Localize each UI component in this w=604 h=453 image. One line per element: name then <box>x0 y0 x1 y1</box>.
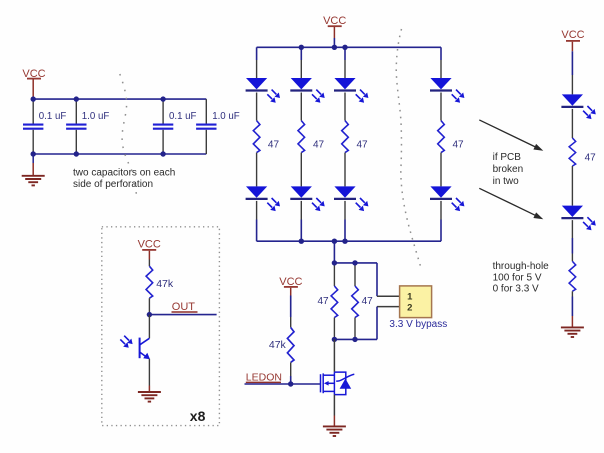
resistor 47 (through-hole column) <box>569 138 596 166</box>
power symbol VCC (LED array) <box>323 15 346 47</box>
wire junction to phototransistor collector <box>148 315 150 339</box>
LED column 2 <box>290 47 324 241</box>
power symbol VCC (x8 cell) <box>138 238 161 266</box>
svg-text:47k: 47k <box>269 339 287 351</box>
perforation dotted line (capacitor bank) <box>120 74 132 171</box>
wire LED array bottom rail to node A <box>333 241 335 263</box>
svg-text:47: 47 <box>357 140 369 151</box>
LED column 1 <box>246 47 280 241</box>
perforation dotted line (LED array) <box>396 29 421 268</box>
wire node B horizontal <box>334 338 377 340</box>
wire LED D2 to through-hole resistor <box>571 220 573 261</box>
node LEDON <box>245 372 321 384</box>
wire bottom rail of capacitor bank <box>33 153 206 155</box>
note: through-hole resistor values <box>493 261 550 295</box>
svg-text:0.1 uF: 0.1 uF <box>169 111 197 122</box>
wire node B to MOSFET drain <box>333 339 335 372</box>
junction dot LEDON node <box>288 381 293 386</box>
svg-text:broken: broken <box>493 164 524 175</box>
capacitor C2 1.0 uF <box>66 99 109 154</box>
svg-text:47: 47 <box>268 140 280 151</box>
svg-text:3.3 V bypass: 3.3 V bypass <box>389 319 447 330</box>
resistor 47 (bypass right) <box>352 263 373 340</box>
arrow lower (if PCB broken) <box>479 188 543 219</box>
svg-text:0.1 uF: 0.1 uF <box>39 111 67 122</box>
junction dots nodes A and B <box>332 260 358 342</box>
capacitor C1 0.1 uF <box>23 99 66 154</box>
svg-text:47: 47 <box>362 296 374 307</box>
wire top rail of LED array <box>257 46 441 48</box>
svg-text:100 for 5 V: 100 for 5 V <box>493 272 542 283</box>
note: two capacitors on each side of perforation <box>73 168 175 191</box>
junction dots on LED array rails <box>299 45 348 244</box>
LED D2 (through-hole column) <box>561 206 595 231</box>
perforation dotted line tail below note <box>135 184 137 198</box>
ground (through-hole column) <box>561 327 584 337</box>
capacitor C4 1.0 uF <box>196 99 240 154</box>
svg-text:0 for 3.3 V: 0 for 3.3 V <box>493 284 539 295</box>
svg-text:47: 47 <box>585 153 597 164</box>
svg-text:47: 47 <box>453 140 465 151</box>
svg-text:VCC: VCC <box>561 29 584 41</box>
MOSFET Q1 with body diode <box>321 372 355 395</box>
svg-text:1.0 uF: 1.0 uF <box>82 111 110 122</box>
svg-text:47: 47 <box>317 296 329 307</box>
node OUT <box>149 301 216 314</box>
dotted box (x8 repeated cell) <box>102 227 220 426</box>
svg-text:x8: x8 <box>190 408 206 424</box>
svg-text:47: 47 <box>313 140 325 151</box>
wire LED D1 to resistor <box>571 109 573 138</box>
svg-text:47k: 47k <box>156 278 174 290</box>
wire connector pin 2 to node B <box>377 307 400 340</box>
svg-text:1: 1 <box>407 291 413 302</box>
LED column 3 <box>334 47 368 241</box>
ground (capacitor bank) <box>22 154 45 185</box>
svg-text:1.0 uF: 1.0 uF <box>212 111 240 122</box>
LED column 4 <box>430 47 464 241</box>
phototransistor Q (x8 cell) <box>140 338 150 360</box>
junction dots on capacitor bank rails <box>31 96 166 156</box>
svg-text:in two: in two <box>493 176 520 187</box>
LED D1 (through-hole column) <box>561 94 595 119</box>
wire node A horizontal <box>334 262 377 264</box>
resistor 47k (x8 cell) <box>146 266 174 314</box>
wire resistor to LED D2 <box>571 166 573 206</box>
wire riser to connector pin 1 <box>377 263 400 296</box>
wire through-hole resistor to ground <box>571 291 573 327</box>
svg-text:if PCB: if PCB <box>493 152 522 163</box>
svg-text:2: 2 <box>407 302 412 313</box>
light arrows into phototransistor <box>120 336 132 348</box>
svg-text:VCC: VCC <box>138 238 161 250</box>
wire bottom rail of LED array <box>257 240 441 242</box>
capacitor C3 0.1 uF <box>153 99 197 154</box>
wire MOSFET source to ground <box>333 395 335 427</box>
ground (LED driver) <box>323 426 346 436</box>
svg-text:VCC: VCC <box>323 15 346 27</box>
note: if PCB broken in two <box>493 152 524 187</box>
resistor 47k (gate pulldown) <box>269 328 294 384</box>
junction dot at OUT node <box>147 312 152 317</box>
ground (x8 cell) <box>138 392 161 402</box>
svg-text:side of perforation: side of perforation <box>73 179 153 190</box>
wire phototransistor emitter to ground <box>148 359 150 392</box>
wire top rail of capacitor bank <box>33 98 206 100</box>
connector J1 3.3 V bypass <box>400 286 432 318</box>
resistor 47 (bypass left) <box>317 263 337 340</box>
svg-text:two capacitors on each: two capacitors on each <box>73 168 175 179</box>
resistor through-hole (no value) <box>569 261 576 291</box>
arrow upper (if PCB broken) <box>479 120 543 151</box>
power symbol VCC (capacitor bank) <box>22 68 45 99</box>
svg-text:through-hole: through-hole <box>493 261 550 272</box>
power symbol VCC (through-hole column) <box>561 29 584 94</box>
power symbol VCC (LED driver) <box>279 276 302 328</box>
